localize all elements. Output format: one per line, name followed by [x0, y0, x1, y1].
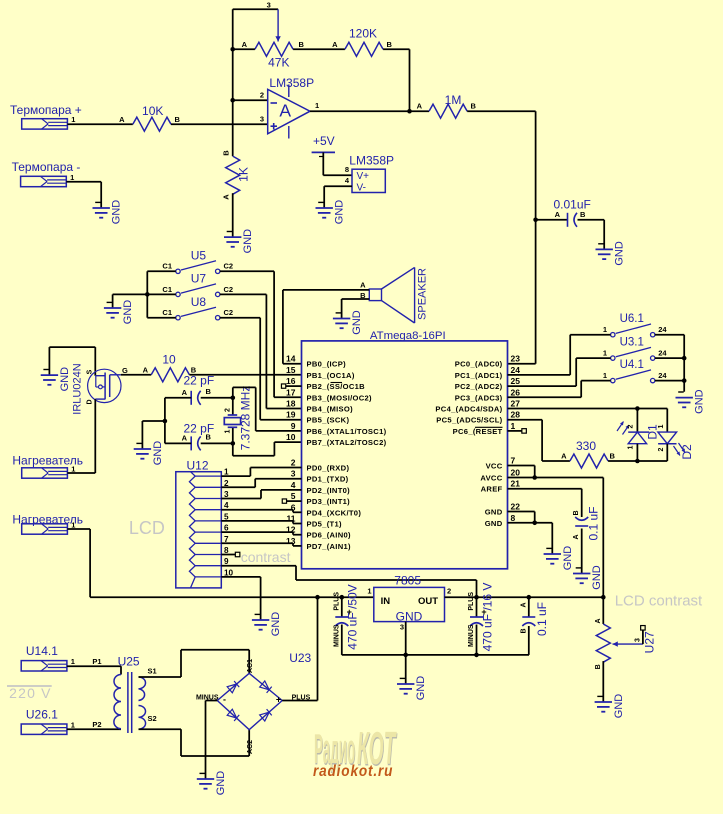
svg-text:LCD contrast: LCD contrast: [615, 593, 703, 610]
svg-text:330: 330: [576, 439, 596, 453]
svg-text:5: 5: [291, 491, 296, 501]
svg-text:-: -: [223, 695, 226, 705]
svg-text:GND: GND: [111, 200, 123, 225]
svg-text:LCD: LCD: [129, 518, 165, 538]
svg-text:PD3_(INT1): PD3_(INT1): [307, 497, 351, 506]
svg-text:S1: S1: [148, 667, 157, 676]
svg-text:U23: U23: [289, 651, 311, 665]
svg-text:3: 3: [267, 1, 271, 10]
svg-text:V-: V-: [357, 182, 366, 193]
svg-text:0.1 uF: 0.1 uF: [535, 602, 549, 636]
svg-text:A: A: [242, 40, 248, 49]
svg-text:47K: 47K: [268, 56, 289, 70]
svg-text:1: 1: [70, 173, 74, 182]
svg-text:3: 3: [260, 115, 264, 124]
svg-text:PLUS: PLUS: [333, 592, 340, 611]
svg-text:B: B: [387, 40, 393, 49]
svg-text:A: A: [520, 602, 527, 607]
svg-text:GND: GND: [59, 367, 71, 392]
svg-text:B: B: [206, 433, 212, 442]
svg-text:A: A: [595, 618, 602, 623]
svg-text:+5V: +5V: [313, 134, 335, 148]
svg-text:GND: GND: [591, 565, 603, 590]
svg-text:U12: U12: [187, 458, 209, 472]
svg-text:A: A: [182, 388, 188, 397]
svg-text:1: 1: [603, 371, 607, 380]
svg-text:120K: 120K: [349, 27, 377, 41]
svg-text:27: 27: [511, 399, 521, 409]
svg-text:GND: GND: [415, 676, 427, 701]
svg-text:GND: GND: [562, 546, 574, 571]
svg-text:GND: GND: [613, 694, 625, 719]
svg-text:PB3_(MOSI/OC2): PB3_(MOSI/OC2): [307, 393, 373, 402]
svg-text:C1: C1: [162, 262, 172, 271]
svg-text:V+: V+: [357, 171, 370, 182]
svg-text:3: 3: [291, 469, 296, 479]
svg-text:7: 7: [511, 456, 516, 466]
svg-text:11: 11: [287, 514, 296, 524]
svg-text:23: 23: [511, 354, 521, 364]
svg-text:AVCC: AVCC: [480, 474, 502, 483]
svg-text:B: B: [206, 387, 212, 396]
svg-text:24: 24: [658, 349, 667, 358]
svg-text:MINUS: MINUS: [333, 624, 340, 647]
svg-text:1: 1: [603, 349, 607, 358]
svg-text:GND: GND: [334, 200, 346, 225]
svg-text:4: 4: [291, 480, 296, 490]
svg-text:28: 28: [511, 410, 521, 420]
svg-text:2: 2: [291, 458, 296, 468]
svg-text:IN: IN: [381, 596, 391, 607]
svg-text:PD1_(TXD): PD1_(TXD): [307, 475, 349, 484]
svg-text:PD2_(INT0): PD2_(INT0): [307, 486, 351, 495]
svg-text:14: 14: [286, 354, 296, 364]
svg-text:ATmega8-16PI: ATmega8-16PI: [370, 330, 446, 342]
svg-text:B: B: [222, 150, 231, 156]
svg-text:radiokot.ru: radiokot.ru: [313, 763, 393, 780]
svg-text:AREF: AREF: [481, 485, 503, 494]
svg-text:U7: U7: [191, 272, 207, 286]
svg-text:GND: GND: [396, 610, 423, 624]
svg-text:16: 16: [286, 376, 296, 386]
svg-text:PD6_(AIN0): PD6_(AIN0): [307, 531, 352, 540]
svg-text:U6.1: U6.1: [620, 313, 644, 325]
svg-text:3: 3: [400, 623, 404, 632]
svg-text:D2: D2: [680, 444, 694, 460]
svg-text:8: 8: [511, 513, 516, 523]
svg-text:10: 10: [286, 432, 296, 442]
svg-text:10: 10: [162, 353, 176, 367]
svg-text:25: 25: [511, 376, 521, 386]
svg-text:B: B: [175, 115, 181, 124]
svg-text:A: A: [561, 452, 567, 461]
svg-text:18: 18: [286, 399, 296, 409]
svg-text:19: 19: [286, 410, 296, 420]
svg-text:1: 1: [71, 657, 75, 666]
svg-text:GND: GND: [215, 771, 227, 796]
svg-text:470 uF /50V: 470 uF /50V: [346, 584, 360, 649]
svg-text:C2: C2: [224, 308, 234, 317]
svg-text:A: A: [279, 101, 291, 121]
svg-text:PC6_(RESET: PC6_(RESET: [453, 427, 503, 436]
svg-text:SPEAKER: SPEAKER: [417, 268, 429, 320]
svg-text:PB1_(OC1A): PB1_(OC1A): [307, 371, 355, 380]
svg-text:17: 17: [286, 387, 296, 397]
svg-text:PB5_(SCK): PB5_(SCK): [307, 416, 350, 425]
svg-text:A: A: [119, 115, 125, 124]
svg-text:B: B: [595, 664, 602, 669]
svg-text:20: 20: [511, 468, 521, 478]
svg-text:AC2: AC2: [247, 740, 254, 754]
svg-text:PB6_(XTAL1/TOSC1): PB6_(XTAL1/TOSC1): [307, 427, 387, 436]
svg-text:GND: GND: [351, 310, 363, 335]
svg-text:1: 1: [511, 421, 516, 431]
svg-text:U27: U27: [643, 631, 657, 653]
svg-text:GND: GND: [694, 389, 706, 414]
svg-text:OUT: OUT: [418, 596, 438, 607]
svg-text:1: 1: [71, 520, 75, 529]
svg-text:GND: GND: [270, 612, 282, 637]
svg-text:PLUS: PLUS: [468, 592, 475, 611]
svg-text:1K: 1K: [237, 167, 251, 182]
svg-text:PC5_(ADC5/SCL): PC5_(ADC5/SCL): [436, 416, 502, 425]
svg-text:U5: U5: [191, 249, 207, 263]
svg-text:22: 22: [511, 502, 521, 512]
svg-text:26: 26: [511, 387, 521, 397]
svg-text:7.3728 MHz: 7.3728 MHz: [239, 386, 253, 451]
svg-text:2: 2: [260, 91, 264, 100]
svg-text:10K: 10K: [142, 104, 163, 118]
svg-text:3: 3: [635, 638, 642, 642]
svg-text:1: 1: [225, 429, 232, 433]
svg-text:+: +: [276, 695, 281, 705]
svg-text:24: 24: [658, 325, 667, 334]
svg-text:A: A: [332, 40, 338, 49]
svg-text:1: 1: [658, 424, 665, 428]
svg-text:MINUS: MINUS: [468, 624, 475, 647]
svg-text:S2: S2: [148, 714, 157, 723]
svg-text:C2: C2: [224, 262, 234, 271]
svg-text:LM358P: LM358P: [269, 76, 314, 90]
svg-text:24: 24: [658, 371, 667, 380]
svg-text:B: B: [520, 628, 527, 633]
svg-text:PD0_(RXD): PD0_(RXD): [307, 464, 350, 473]
svg-text:A: A: [360, 280, 366, 289]
svg-text:GND: GND: [485, 519, 503, 528]
svg-text:C2: C2: [224, 285, 234, 294]
svg-text:24: 24: [511, 365, 521, 375]
svg-text:U8: U8: [191, 295, 207, 309]
svg-text:GND: GND: [485, 508, 503, 517]
svg-text:A: A: [417, 102, 423, 111]
svg-text:contrast: contrast: [241, 549, 291, 565]
svg-text:1: 1: [367, 587, 371, 596]
svg-text:AC1: AC1: [247, 659, 254, 673]
svg-text:LM358P: LM358P: [349, 154, 394, 168]
svg-text:12: 12: [286, 525, 296, 535]
svg-text:GND: GND: [614, 241, 626, 266]
svg-text:A: A: [573, 534, 580, 539]
svg-text:U26.1: U26.1: [26, 708, 58, 722]
svg-text:220 V: 220 V: [9, 685, 52, 701]
svg-text:A: A: [555, 210, 561, 219]
svg-text:S: S: [86, 369, 93, 374]
svg-text:PB4_(MISO): PB4_(MISO): [307, 405, 354, 414]
svg-text:2: 2: [628, 424, 635, 428]
svg-text:1M: 1M: [445, 93, 462, 107]
svg-text:PD4_(XCK/T0): PD4_(XCK/T0): [307, 508, 362, 517]
svg-text:U3.1: U3.1: [620, 337, 644, 349]
svg-text:B: B: [471, 102, 477, 111]
svg-text:A: A: [143, 365, 149, 374]
svg-text:13: 13: [286, 536, 296, 546]
svg-text:1: 1: [71, 115, 75, 124]
svg-text:2: 2: [447, 587, 451, 596]
svg-text:PB7_(XTAL2/TOSC2): PB7_(XTAL2/TOSC2): [307, 438, 387, 447]
svg-text:PC4_(ADC4/SDA): PC4_(ADC4/SDA): [435, 405, 502, 414]
svg-text:D: D: [86, 399, 93, 404]
svg-text:P2: P2: [92, 720, 101, 729]
svg-text:B: B: [573, 510, 580, 515]
svg-text:PB0_(ICP): PB0_(ICP): [307, 360, 347, 369]
svg-text:2: 2: [225, 408, 232, 412]
svg-text:C1: C1: [162, 285, 172, 294]
svg-text:PD5_(T1): PD5_(T1): [307, 520, 342, 529]
svg-text:GND: GND: [122, 300, 134, 325]
svg-text:PC2_(ADC2): PC2_(ADC2): [455, 382, 503, 391]
svg-text:U14.1: U14.1: [26, 644, 58, 658]
svg-text:1: 1: [603, 325, 607, 334]
svg-text:2: 2: [658, 447, 665, 451]
svg-text:15: 15: [286, 365, 296, 375]
svg-text:GND: GND: [242, 229, 254, 254]
svg-text:1: 1: [628, 445, 635, 449]
svg-text:B: B: [299, 40, 305, 49]
svg-text:PC3_(ADC3): PC3_(ADC3): [455, 393, 503, 402]
svg-text:0.1 uF: 0.1 uF: [587, 506, 601, 540]
svg-text:7805: 7805: [394, 574, 421, 588]
svg-text:G: G: [122, 366, 128, 375]
svg-text:1: 1: [71, 721, 75, 730]
svg-text:PD7_(AIN1): PD7_(AIN1): [307, 542, 352, 551]
svg-text:9: 9: [291, 421, 296, 431]
svg-text:470 uF /16 V: 470 uF /16 V: [480, 583, 494, 652]
svg-text:P1: P1: [92, 657, 101, 666]
svg-text:A: A: [182, 434, 188, 443]
svg-text:A: A: [222, 194, 231, 200]
svg-text:PC0_(ADC0): PC0_(ADC0): [455, 360, 503, 369]
svg-text:1: 1: [71, 464, 75, 473]
svg-text:VCC: VCC: [486, 462, 503, 471]
svg-text:U4.1: U4.1: [620, 359, 644, 371]
svg-text:22 pF: 22 pF: [184, 374, 215, 388]
svg-text:21: 21: [511, 479, 521, 489]
svg-text:B: B: [580, 210, 586, 219]
svg-text:1: 1: [315, 101, 319, 110]
svg-text:C1: C1: [162, 308, 172, 317]
svg-text:PC1_(ADC1): PC1_(ADC1): [455, 371, 503, 380]
svg-text:B: B: [610, 452, 616, 461]
svg-text:GND: GND: [152, 441, 164, 466]
svg-text:PB2_(SS/OC1B: PB2_(SS/OC1B: [307, 382, 366, 391]
svg-text:IRLU024N: IRLU024N: [72, 363, 84, 414]
